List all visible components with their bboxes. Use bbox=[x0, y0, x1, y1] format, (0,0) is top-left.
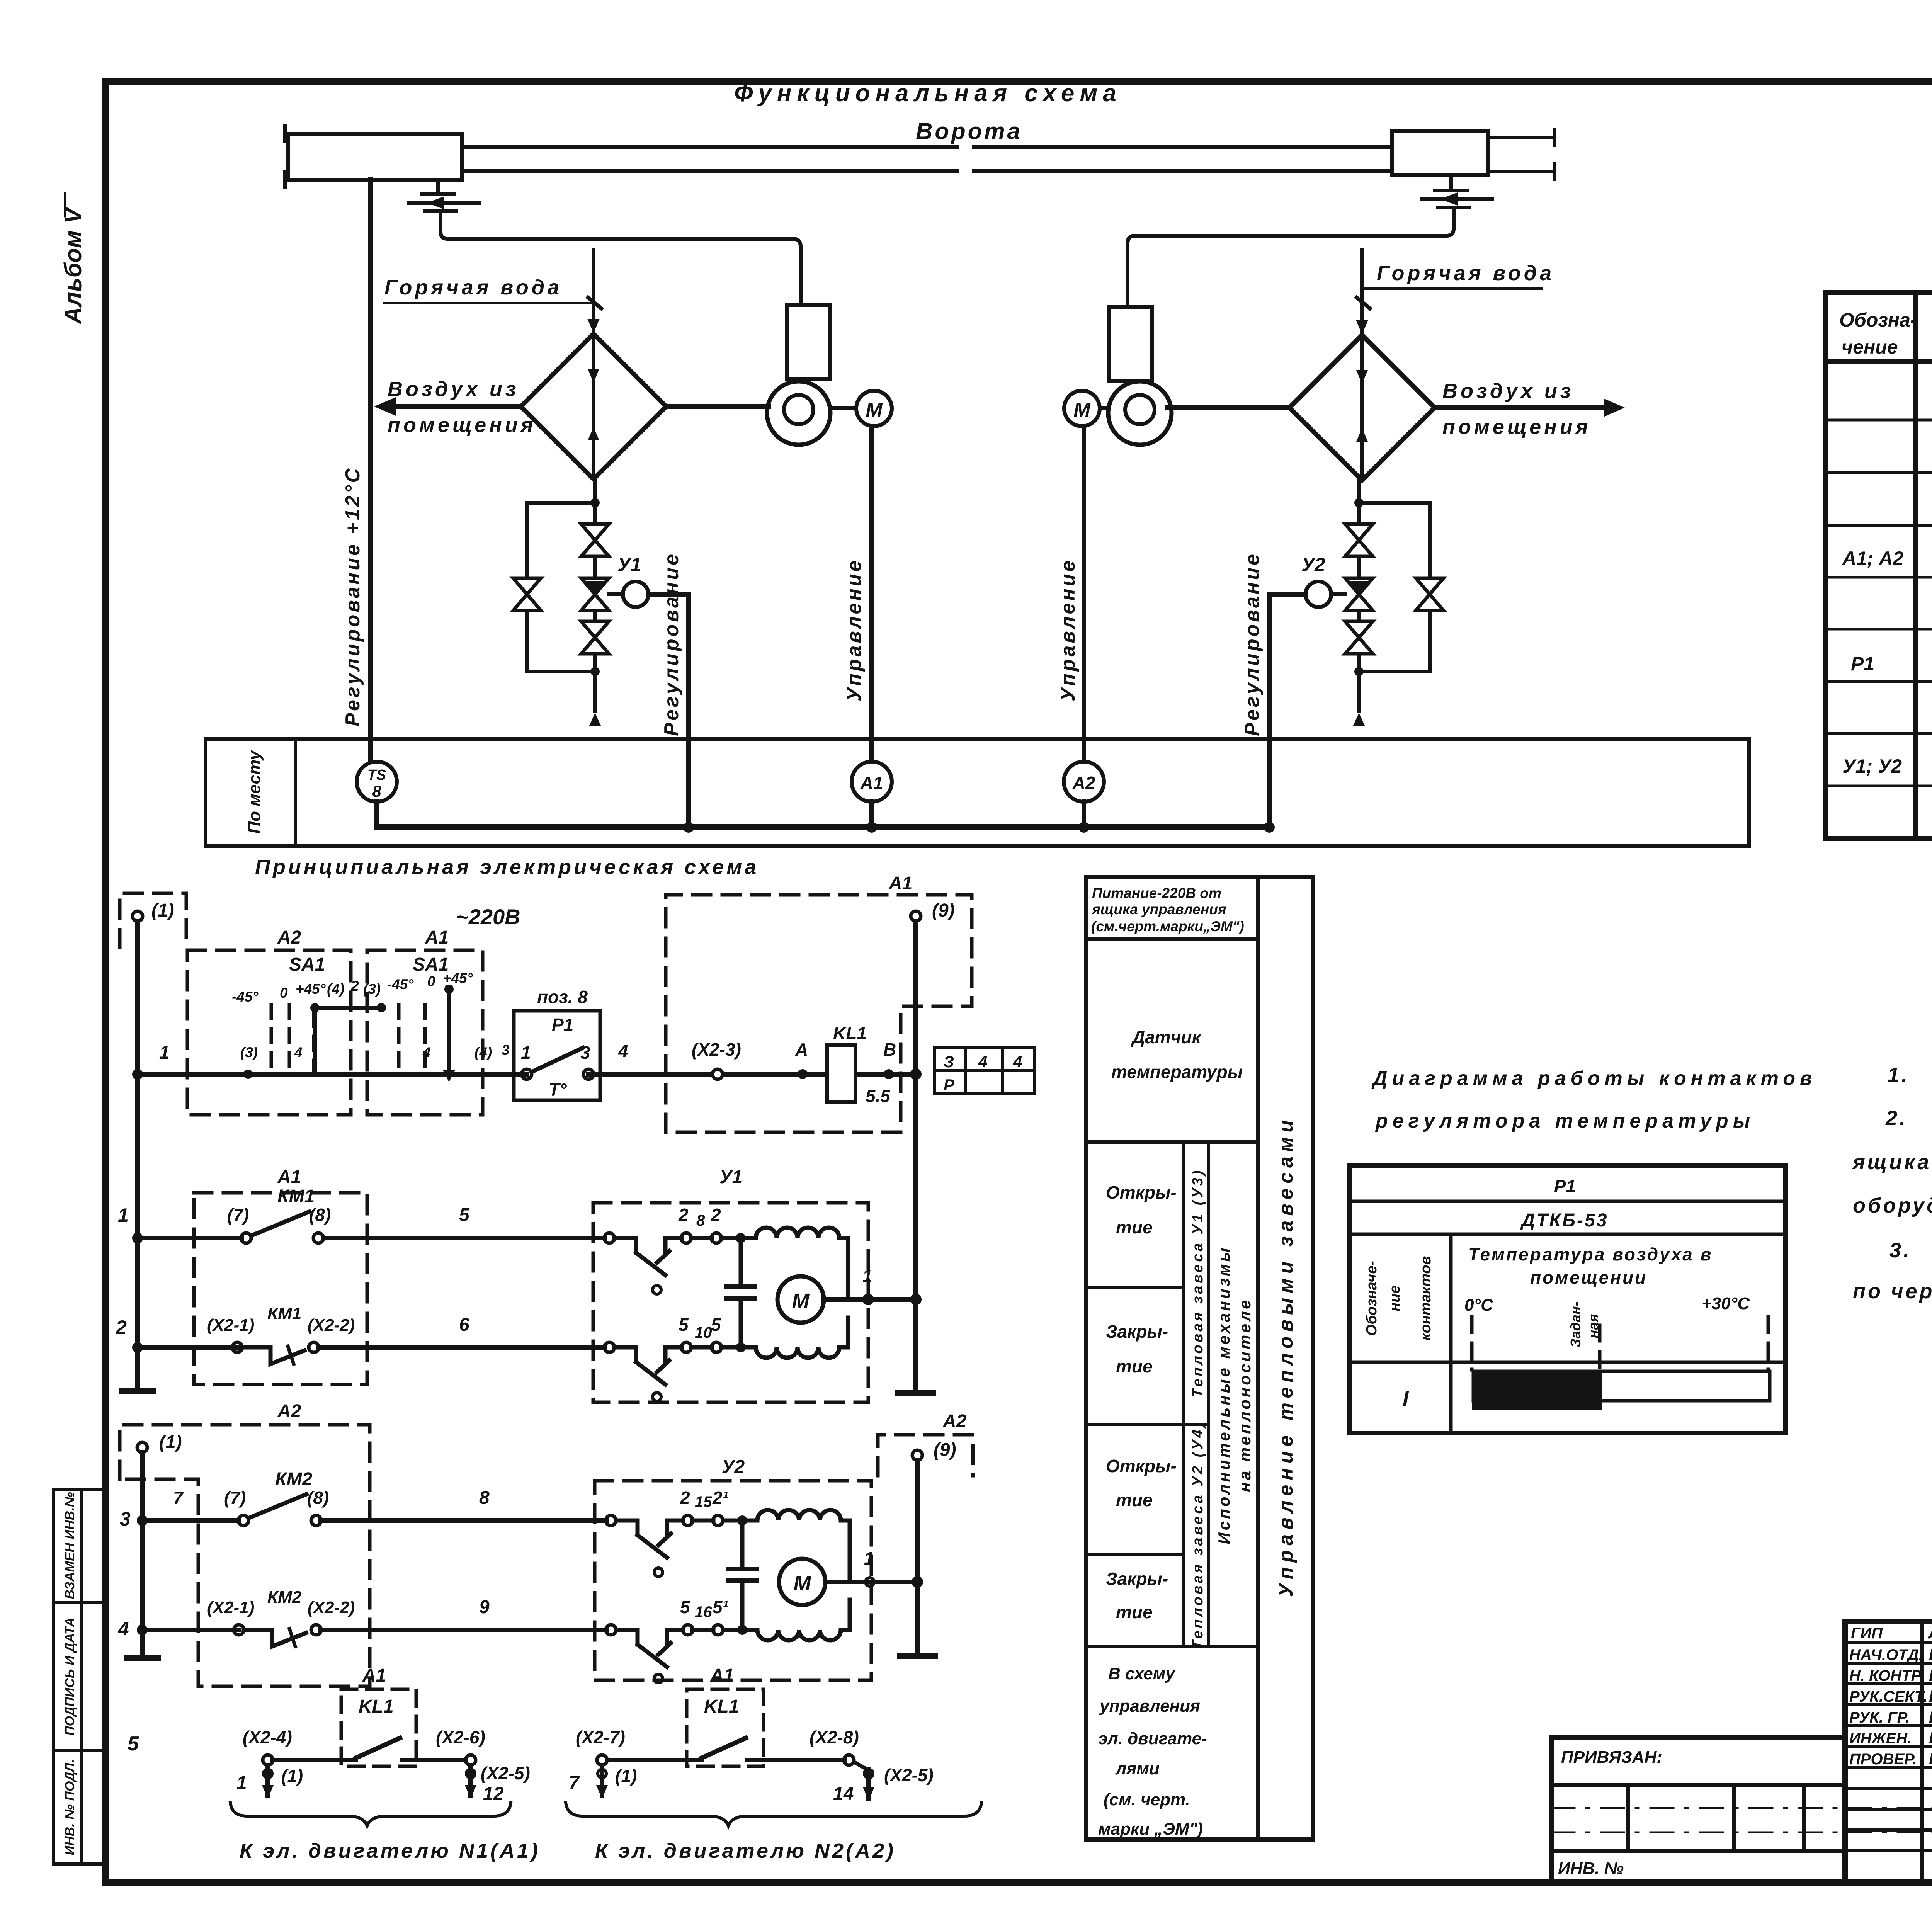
svg-text:(7): (7) bbox=[224, 1488, 246, 1508]
svg-text:тие: тие bbox=[1116, 1217, 1153, 1237]
svg-text:2¹: 2¹ bbox=[712, 1488, 728, 1508]
svg-text:ТS: ТS bbox=[367, 767, 386, 783]
svg-text:РУК. ГР.: РУК. ГР. bbox=[1849, 1709, 1910, 1726]
svg-text:М: М bbox=[866, 399, 883, 421]
svg-text:контактов: контактов bbox=[1418, 1256, 1434, 1340]
svg-text:Закры-: Закры- bbox=[1106, 1569, 1168, 1589]
svg-text:М: М bbox=[794, 1572, 811, 1595]
svg-text:(4): (4) bbox=[474, 1044, 492, 1060]
svg-text:-45°: -45° bbox=[387, 976, 413, 992]
svg-text:ПОДПИСЬ И ДАТА: ПОДПИСЬ И ДАТА bbox=[63, 1617, 77, 1736]
svg-text:7: 7 bbox=[173, 1488, 184, 1508]
svg-text:(см. черт.: (см. черт. bbox=[1104, 1790, 1190, 1809]
svg-text:оборудования.: оборудования. bbox=[1853, 1194, 1932, 1217]
svg-text:(Х2-1): (Х2-1) bbox=[207, 1316, 254, 1335]
svg-text:Температура воздуха в: Температура воздуха в bbox=[1468, 1244, 1713, 1264]
svg-text:~220В: ~220В bbox=[456, 905, 520, 929]
svg-text:помещения: помещения bbox=[388, 413, 536, 437]
svg-text:Задан-: Задан- bbox=[1568, 1301, 1583, 1347]
svg-text:ВЗАМЕН ИНВ.№: ВЗАМЕН ИНВ.№ bbox=[63, 1492, 77, 1599]
svg-text:16: 16 bbox=[695, 1604, 712, 1621]
svg-text:3: 3 bbox=[120, 1508, 131, 1530]
svg-text:ДТКБ-53: ДТКБ-53 bbox=[1520, 1210, 1609, 1231]
svg-text:К эл. двигателю N2(А2): К эл. двигателю N2(А2) bbox=[595, 1839, 896, 1862]
svg-text:ГИП: ГИП bbox=[1851, 1625, 1883, 1642]
svg-text:(Х2-3): (Х2-3) bbox=[692, 1039, 741, 1060]
svg-text:+30°С: +30°С bbox=[1702, 1294, 1750, 1313]
svg-text:Питание-220В от: Питание-220В от bbox=[1092, 885, 1221, 901]
svg-text:4: 4 bbox=[618, 1041, 628, 1061]
svg-text:Управление тепловыми завесам: Управление тепловыми завесами bbox=[1275, 1116, 1297, 1597]
svg-text:Регулирование: Регулирование bbox=[1241, 552, 1264, 736]
svg-text:4: 4 bbox=[294, 1044, 303, 1060]
svg-text:У1: У1 bbox=[617, 554, 641, 575]
svg-text:5¹: 5¹ bbox=[713, 1597, 728, 1617]
svg-text:(Х2-1): (Х2-1) bbox=[207, 1598, 254, 1617]
svg-text:А1: А1 bbox=[888, 873, 912, 894]
svg-text:1: 1 bbox=[864, 1548, 874, 1568]
svg-text:У1; У2: У1; У2 bbox=[1842, 755, 1902, 777]
svg-text:4: 4 bbox=[118, 1618, 129, 1639]
svg-text:По месту: По месту bbox=[245, 750, 264, 834]
svg-text:А1: А1 bbox=[425, 927, 449, 948]
svg-text:SA1: SA1 bbox=[289, 954, 325, 975]
svg-text:А2: А2 bbox=[1072, 773, 1095, 793]
svg-text:5: 5 bbox=[711, 1315, 721, 1335]
svg-text:1: 1 bbox=[118, 1204, 129, 1226]
svg-text:(1): (1) bbox=[281, 1766, 303, 1786]
svg-text:(8): (8) bbox=[307, 1488, 329, 1508]
svg-text:У2: У2 bbox=[722, 1457, 745, 1477]
svg-text:5: 5 bbox=[128, 1733, 139, 1755]
svg-text:регулятора температуры: регулятора температуры bbox=[1375, 1110, 1755, 1132]
svg-text:У1: У1 bbox=[719, 1167, 742, 1187]
svg-text:тие: тие bbox=[1116, 1490, 1153, 1510]
svg-text:+45°: +45° bbox=[443, 970, 473, 986]
svg-text:6: 6 bbox=[459, 1315, 469, 1335]
svg-text:тие: тие bbox=[1116, 1356, 1153, 1376]
svg-text:Горячая вода: Горячая вода bbox=[1377, 262, 1554, 285]
svg-text:5.5: 5.5 bbox=[866, 1086, 891, 1106]
svg-text:+45°: +45° bbox=[296, 981, 326, 997]
svg-text:(Х2-4): (Х2-4) bbox=[243, 1727, 292, 1747]
svg-text:тие: тие bbox=[1116, 1602, 1153, 1622]
svg-text:А: А bbox=[795, 1039, 808, 1060]
svg-text:8: 8 bbox=[479, 1488, 490, 1508]
svg-text:I: I bbox=[1403, 1386, 1409, 1410]
svg-text:4: 4 bbox=[978, 1053, 987, 1071]
svg-text:К эл. двигателю N1(А1): К эл. двигателю N1(А1) bbox=[240, 1839, 540, 1862]
svg-text:температуры: температуры bbox=[1111, 1062, 1243, 1082]
svg-text:КМ1: КМ1 bbox=[277, 1186, 315, 1207]
svg-text:(Х2-2): (Х2-2) bbox=[308, 1598, 355, 1617]
svg-text:ние: ние bbox=[1387, 1285, 1403, 1311]
svg-text:А1: А1 bbox=[860, 773, 883, 793]
svg-text:1.: 1. bbox=[1888, 1063, 1910, 1087]
svg-text:1: 1 bbox=[862, 1266, 872, 1286]
svg-text:(Х2-7): (Х2-7) bbox=[576, 1727, 625, 1747]
svg-text:лями: лями bbox=[1115, 1759, 1160, 1778]
svg-text:Горячая вода: Горячая вода bbox=[384, 276, 562, 299]
svg-text:(1): (1) bbox=[159, 1432, 182, 1452]
svg-text:1: 1 bbox=[521, 1043, 531, 1063]
svg-text:0: 0 bbox=[280, 985, 288, 1001]
svg-text:3: 3 bbox=[502, 1042, 510, 1058]
svg-text:Закры-: Закры- bbox=[1106, 1321, 1168, 1342]
svg-text:Принципиальная электрическая: Принципиальная электрическая схема bbox=[255, 855, 759, 879]
svg-text:Альбом V: Альбом V bbox=[60, 206, 87, 325]
svg-text:Исполнительные механизмы: Исполнительные механизмы bbox=[1215, 1246, 1233, 1544]
svg-text:Иванов: Иванов bbox=[1929, 1729, 1932, 1747]
svg-text:(см.черт.марки„ЭМ"): (см.черт.марки„ЭМ") bbox=[1091, 918, 1244, 934]
svg-text:(3): (3) bbox=[363, 981, 381, 997]
svg-text:ПРОВЕР.: ПРОВЕР. bbox=[1849, 1751, 1917, 1768]
svg-text:-45°: -45° bbox=[232, 989, 258, 1005]
svg-text:(8): (8) bbox=[309, 1205, 331, 1225]
svg-text:А1: А1 bbox=[277, 1167, 301, 1187]
svg-text:Управление: Управление bbox=[843, 558, 866, 701]
svg-text:Воздух из: Воздух из bbox=[388, 378, 519, 401]
svg-text:Керзликина: Керзликина bbox=[1929, 1750, 1932, 1768]
svg-text:ИНВ. №: ИНВ. № bbox=[1558, 1859, 1624, 1878]
svg-text:KL1: KL1 bbox=[359, 1696, 394, 1717]
svg-text:8: 8 bbox=[696, 1212, 705, 1229]
svg-text:8: 8 bbox=[372, 782, 381, 800]
svg-text:0°С: 0°С bbox=[1464, 1296, 1493, 1315]
svg-text:Р1: Р1 bbox=[552, 1015, 573, 1035]
svg-text:15: 15 bbox=[695, 1493, 712, 1510]
svg-text:Обозначе-: Обозначе- bbox=[1364, 1261, 1380, 1336]
svg-text:помещения: помещения bbox=[1442, 415, 1591, 439]
svg-text:9: 9 bbox=[479, 1597, 490, 1617]
svg-text:(9): (9) bbox=[934, 1440, 956, 1460]
svg-text:Тепловая завеса У2 (У4): Тепловая завеса У2 (У4) bbox=[1190, 1420, 1206, 1650]
svg-text:В: В bbox=[883, 1039, 896, 1060]
svg-text:ПРИВЯЗАН:: ПРИВЯЗАН: bbox=[1561, 1748, 1662, 1767]
svg-text:Откры-: Откры- bbox=[1106, 1456, 1177, 1476]
svg-text:Датчик: Датчик bbox=[1131, 1027, 1202, 1047]
svg-text:Т°: Т° bbox=[549, 1080, 567, 1100]
svg-text:Обозна-: Обозна- bbox=[1839, 309, 1917, 331]
svg-text:поз. 8: поз. 8 bbox=[537, 987, 588, 1007]
svg-text:(7): (7) bbox=[227, 1205, 249, 1225]
svg-text:(Х2-5): (Х2-5) bbox=[884, 1765, 934, 1785]
svg-text:РУК.СЕКТ.: РУК.СЕКТ. bbox=[1849, 1688, 1928, 1705]
svg-text:эл. двигате-: эл. двигате- bbox=[1098, 1729, 1207, 1748]
svg-text:2: 2 bbox=[350, 978, 359, 994]
svg-text:В схему: В схему bbox=[1108, 1664, 1176, 1683]
svg-text:Воздух из: Воздух из bbox=[1442, 379, 1574, 403]
svg-text:ИНЖЕН.: ИНЖЕН. bbox=[1849, 1730, 1912, 1747]
svg-text:КМ2: КМ2 bbox=[267, 1588, 302, 1607]
svg-text:Бобнева: Бобнева bbox=[1929, 1687, 1932, 1705]
svg-text:А2: А2 bbox=[942, 1411, 967, 1432]
svg-text:марки „ЭМ"): марки „ЭМ") bbox=[1098, 1820, 1203, 1838]
svg-text:2: 2 bbox=[678, 1205, 689, 1225]
svg-text:А2: А2 bbox=[277, 927, 301, 948]
svg-text:Управление: Управление bbox=[1057, 558, 1079, 701]
svg-text:М: М bbox=[792, 1289, 810, 1313]
svg-text:3.: 3. bbox=[1889, 1239, 1912, 1262]
svg-text:Тепловая завеса У1 (У3): Тепловая завеса У1 (У3) bbox=[1190, 1168, 1206, 1398]
svg-text:Р: Р bbox=[944, 1076, 955, 1094]
svg-text:12: 12 bbox=[483, 1784, 504, 1804]
svg-text:чение: чение bbox=[1842, 336, 1898, 358]
svg-text:НАЧ.ОТД.: НАЧ.ОТД. bbox=[1849, 1646, 1923, 1663]
svg-text:по чертежам эл. силового об: по чертежам эл. силового оборудования. bbox=[1853, 1280, 1932, 1303]
svg-text:5: 5 bbox=[679, 1315, 689, 1335]
svg-text:10: 10 bbox=[695, 1324, 712, 1341]
svg-text:1: 1 bbox=[236, 1773, 247, 1793]
svg-text:Ворота: Ворота bbox=[916, 118, 1022, 144]
svg-text:Н. КОНТР.: Н. КОНТР. bbox=[1849, 1667, 1923, 1684]
svg-text:(3): (3) bbox=[240, 1044, 258, 1060]
svg-text:(1): (1) bbox=[151, 900, 174, 921]
svg-text:КМ1: КМ1 bbox=[267, 1304, 301, 1323]
svg-text:(Х2-5): (Х2-5) bbox=[481, 1763, 530, 1783]
svg-text:2: 2 bbox=[116, 1316, 127, 1338]
svg-text:(Х2-8): (Х2-8) bbox=[810, 1727, 859, 1747]
svg-text:(Х2-2): (Х2-2) bbox=[308, 1316, 355, 1335]
svg-text:Венин: Венин bbox=[1929, 1645, 1932, 1663]
svg-text:ИНВ. № ПОДЛ.: ИНВ. № ПОДЛ. bbox=[63, 1759, 77, 1855]
svg-text:5: 5 bbox=[680, 1597, 690, 1617]
svg-text:Диаграмма работы контактов: Диаграмма работы контактов bbox=[1371, 1067, 1816, 1090]
svg-text:КМ2: КМ2 bbox=[275, 1469, 312, 1490]
svg-text:KL1: KL1 bbox=[833, 1023, 867, 1043]
svg-text:1: 1 bbox=[159, 1043, 170, 1063]
svg-text:Регулирование: Регулирование bbox=[660, 552, 683, 736]
svg-text:Регулирование +12°С: Регулирование +12°С bbox=[342, 466, 364, 726]
svg-text:Р1: Р1 bbox=[1851, 653, 1874, 675]
svg-text:2: 2 bbox=[680, 1488, 690, 1508]
svg-text:4: 4 bbox=[1013, 1053, 1022, 1071]
svg-text:(Х2-6): (Х2-6) bbox=[436, 1727, 485, 1747]
svg-text:управления: управления bbox=[1099, 1697, 1200, 1716]
svg-text:Бобнева: Бобнева bbox=[1929, 1666, 1932, 1684]
svg-text:2.: 2. bbox=[1885, 1107, 1908, 1130]
svg-text:Откры-: Откры- bbox=[1106, 1182, 1177, 1202]
svg-text:ящика управления , заказываем: ящика управления , заказываемого в черте… bbox=[1852, 1151, 1932, 1174]
svg-text:(9): (9) bbox=[932, 900, 955, 921]
svg-text:7: 7 bbox=[569, 1773, 580, 1793]
svg-text:З: З bbox=[944, 1053, 954, 1071]
svg-text:KL1: KL1 bbox=[704, 1696, 739, 1717]
svg-text:ящика управления: ящика управления bbox=[1091, 901, 1226, 917]
svg-text:Р1: Р1 bbox=[1554, 1176, 1576, 1196]
svg-text:М: М bbox=[1073, 399, 1091, 421]
svg-text:У2: У2 bbox=[1301, 554, 1325, 575]
svg-text:2: 2 bbox=[711, 1205, 721, 1225]
svg-text:0: 0 bbox=[427, 973, 435, 989]
svg-text:А2: А2 bbox=[277, 1401, 301, 1422]
svg-text:на теплоносителе: на теплоносителе bbox=[1236, 1298, 1254, 1492]
svg-text:Функциональная схема: Функциональная схема bbox=[734, 80, 1122, 107]
svg-text:(1): (1) bbox=[615, 1766, 637, 1786]
svg-text:А1: А1 bbox=[710, 1665, 734, 1686]
svg-text:(4): (4) bbox=[327, 981, 344, 997]
svg-text:помещении: помещении bbox=[1530, 1267, 1647, 1287]
svg-text:5: 5 bbox=[459, 1205, 470, 1225]
svg-text:Рыбушкина: Рыбушкина bbox=[1929, 1708, 1932, 1726]
svg-text:3: 3 bbox=[580, 1043, 590, 1063]
svg-text:А1; А2: А1; А2 bbox=[1842, 548, 1904, 569]
svg-text:А1: А1 bbox=[362, 1665, 386, 1686]
svg-text:14: 14 bbox=[833, 1784, 854, 1804]
